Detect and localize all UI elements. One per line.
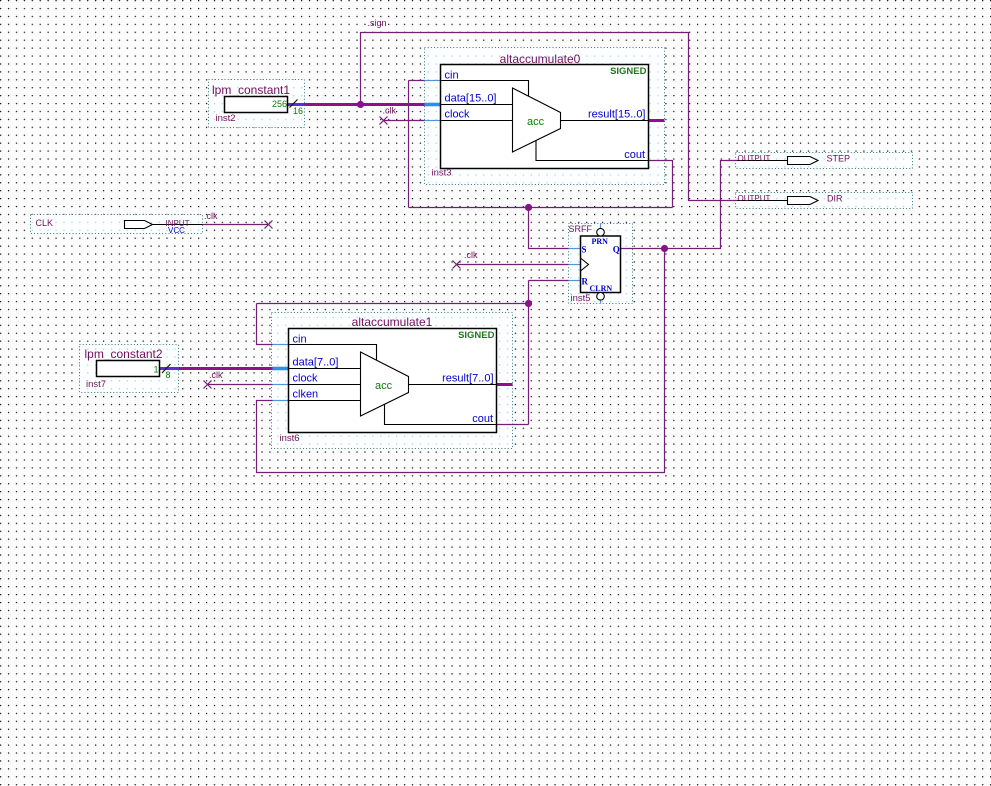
- selection box lpm_constant2 inst7: [80, 345, 179, 393]
- wire net cin1/cout1/R: R vertical: [528, 281, 530, 425]
- port clken altaccumulate1: [289, 389, 361, 401]
- pin stub clken altaccumulate1 (blue): [273, 400, 289, 402]
- svg-text:acc: acc: [527, 116, 545, 128]
- svg-text:data[7..0]: data[7..0]: [293, 357, 339, 369]
- svg-text:VCC: VCC: [168, 226, 185, 235]
- wire Q net to clken altaccumulate1: [257, 249, 665, 473]
- wire net sign: junction to DIR: [361, 33, 738, 201]
- constant lpm_constant1 (inst2): [212, 83, 290, 124]
- wire net clk stub at SRFF clock: [457, 264, 569, 266]
- port clock altaccumulate1: [289, 373, 361, 385]
- selection box lpm_constant1 inst2: [209, 80, 305, 128]
- port cin altaccumulate1: [289, 334, 377, 361]
- svg-text:S: S: [582, 245, 587, 255]
- dangling end x at SRFF clock: [453, 261, 461, 269]
- pin stub lpm_constant1 output (blue-violet): [288, 103, 305, 106]
- junction J4: [525, 300, 532, 307]
- bus width label 8: [166, 370, 171, 380]
- svg-text:cin: cin: [445, 70, 459, 82]
- bus stub result[15..0]: [649, 119, 665, 122]
- svg-text:clock: clock: [293, 373, 319, 385]
- net label .clk at altaccumulate1: [209, 370, 223, 380]
- acc triangle altaccumulate1: [361, 352, 409, 416]
- svg-text:.sign: .sign: [368, 18, 387, 28]
- junction J2: [525, 204, 532, 211]
- svg-text:OUTPUT: OUTPUT: [738, 154, 771, 163]
- svg-text:SIGNED: SIGNED: [610, 66, 647, 77]
- svg-text:.clk: .clk: [204, 211, 218, 221]
- wire net clk stub at altaccumulate1 clock: [208, 384, 273, 386]
- port result[15..0] altaccumulate0: [561, 109, 649, 121]
- port cout altaccumulate0: [536, 141, 649, 162]
- clock triangle SRFF: [581, 258, 589, 271]
- svg-text:.clk: .clk: [209, 370, 223, 380]
- net label .sign: [368, 18, 387, 28]
- bus width slash at lpm_constant2: [162, 364, 171, 373]
- bus stub result[7..0]: [497, 383, 513, 386]
- svg-text:STEP: STEP: [827, 154, 851, 164]
- bus width label 16: [293, 106, 303, 116]
- svg-text:lpm_constant1: lpm_constant1: [212, 83, 290, 97]
- constant lpm_constant2 (inst7): [85, 347, 163, 390]
- net label .clk at CLK input: [204, 211, 218, 221]
- pin stub clock SRFF (blue): [569, 264, 581, 266]
- wire Q output of SRFF to STEP: [621, 161, 738, 249]
- selection box SRFF inst5: [569, 224, 633, 304]
- svg-text:.clk: .clk: [383, 106, 397, 116]
- junction J1 on bus at sign tap: [357, 101, 364, 108]
- wire net cout0/cin0/S: cin horizontal: [409, 80, 425, 82]
- flip-flop SRFF (inst5): [569, 224, 621, 305]
- svg-text:SRFF: SRFF: [569, 224, 593, 234]
- accumulator altaccumulate0 (inst3): [432, 52, 649, 179]
- svg-text:lpm_constant2: lpm_constant2: [85, 347, 163, 361]
- pin stub clock altaccumulate0 (blue): [425, 120, 441, 122]
- output pin STEP: [738, 154, 851, 165]
- svg-text:altaccumulate1: altaccumulate1: [352, 315, 433, 329]
- port data[15..0] altaccumulate0: [441, 93, 513, 105]
- accumulator altaccumulate1 (inst6): [280, 315, 497, 444]
- wire net cin1/cout1/R: top horizontal: [257, 303, 529, 305]
- pin stub lpm_constant2 output (blue-violet): [160, 367, 179, 370]
- wire J2 to S input of SRFF: [529, 208, 569, 249]
- pin stub S SRFF (blue): [569, 248, 581, 250]
- net label .clk at altaccumulate0: [383, 106, 397, 116]
- svg-text:clken: clken: [293, 389, 319, 401]
- selection box output pin DIR: [736, 193, 913, 209]
- svg-text:acc: acc: [375, 380, 393, 392]
- wire net cout0/cin0/S: bottom horizontal: [409, 207, 673, 209]
- svg-text:CLK: CLK: [36, 218, 54, 228]
- svg-text:data[15..0]: data[15..0]: [445, 93, 497, 105]
- port cin altaccumulate0: [441, 70, 529, 97]
- port result[7..0] altaccumulate1: [409, 373, 497, 385]
- pin stub cin altaccumulate1 (blue): [273, 344, 289, 346]
- dangling end x at altaccumulate0 clock: [380, 117, 388, 125]
- clear bubble CLRN: [597, 293, 605, 304]
- svg-text:cout: cout: [624, 149, 645, 161]
- output pin DIR: [738, 194, 844, 205]
- selection box altaccumulate0 inst3: [425, 48, 665, 185]
- svg-text:8: 8: [166, 370, 171, 380]
- svg-text:256: 256: [272, 99, 287, 109]
- port data[7..0] altaccumulate1: [289, 357, 361, 369]
- svg-text:inst6: inst6: [280, 433, 300, 444]
- acc triangle altaccumulate0: [513, 88, 561, 152]
- svg-text:CLRN: CLRN: [590, 284, 613, 293]
- svg-text:Q: Q: [613, 245, 620, 255]
- port cout altaccumulate1: [385, 405, 497, 426]
- svg-text:OUTPUT: OUTPUT: [738, 194, 771, 203]
- bus width slash at lpm_constant1: [290, 100, 298, 108]
- junction J3 on Q net: [661, 245, 668, 252]
- bus lpm_constant2 output to data[7..0]: [160, 367, 273, 370]
- bus pin stub data[15..0] altaccumulate0 (blue): [425, 103, 441, 107]
- svg-text:SIGNED: SIGNED: [458, 330, 495, 341]
- selection box input pin CLK: [31, 215, 203, 234]
- wire net clk from CLK input pin: [203, 224, 269, 226]
- wire net cout0/cin0/S: cout drop: [649, 161, 673, 208]
- svg-text:result[7..0]: result[7..0]: [442, 373, 493, 385]
- svg-text:result[15..0]: result[15..0]: [588, 109, 645, 121]
- svg-text:PRN: PRN: [592, 237, 609, 246]
- net label .clk at SRFF: [464, 250, 478, 260]
- svg-text:R: R: [582, 277, 589, 287]
- preset bubble PRN: [597, 224, 605, 237]
- port clock altaccumulate0: [441, 109, 513, 121]
- wire net cout0/cin0/S: cin vertical: [408, 81, 410, 208]
- svg-text:.clk: .clk: [464, 250, 478, 260]
- pin stub cin altaccumulate0 (blue): [425, 80, 441, 82]
- wire net clk stub at altaccumulate0 clock: [384, 120, 425, 122]
- svg-text:cout: cout: [472, 413, 493, 425]
- pin stub R SRFF (blue): [569, 280, 581, 282]
- svg-text:inst2: inst2: [216, 113, 236, 124]
- dangling end x at altaccumulate1 clock: [204, 381, 212, 389]
- svg-text:DIR: DIR: [827, 194, 843, 204]
- svg-text:16: 16: [293, 106, 303, 116]
- wire net cin1/cout1/R: cin drop: [257, 304, 273, 345]
- svg-text:cin: cin: [293, 334, 307, 346]
- bus pin stub data[7..0] altaccumulate1 (blue): [273, 367, 289, 371]
- selection box output pin STEP: [736, 153, 913, 169]
- selection box altaccumulate1 inst6: [272, 313, 513, 449]
- wire R horizontal to SRFF: [529, 280, 569, 282]
- svg-text:clock: clock: [445, 109, 471, 121]
- wire cout1 to J4: [497, 424, 529, 426]
- svg-text:inst7: inst7: [86, 379, 106, 390]
- svg-text:inst5: inst5: [571, 293, 591, 304]
- input pin CLK: [36, 218, 203, 235]
- bus lpm_constant1 output to data[15..0]: [288, 103, 426, 106]
- svg-text:inst3: inst3: [432, 168, 452, 179]
- pin stub clock altaccumulate1 (blue): [273, 384, 289, 386]
- dangling end x at CLK wire: [265, 221, 273, 229]
- svg-text:1: 1: [153, 365, 158, 375]
